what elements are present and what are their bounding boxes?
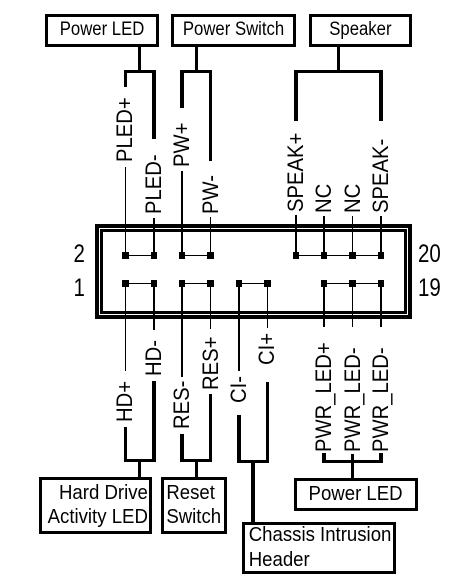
pin 1 HD+ xyxy=(122,280,129,287)
pin 20 SPEAK- xyxy=(378,252,385,259)
lead pin 1 to HD+ xyxy=(125,284,127,371)
link pins 14-20 xyxy=(296,255,381,257)
wire Chassis box drop xyxy=(251,463,255,522)
box Power Switch xyxy=(171,14,297,47)
lead pin 19 to PWR_LED- xyxy=(380,284,382,328)
wire PW+ stub xyxy=(180,70,184,108)
wire Speaker box drop xyxy=(337,46,341,71)
box Speaker xyxy=(309,14,413,47)
inner lead, bottom row col4 xyxy=(210,284,212,316)
lead pin 7 to RES+ xyxy=(210,284,212,329)
inner lead, bottom row col9 xyxy=(352,284,354,316)
pin 2 PLED+ xyxy=(122,252,129,259)
wire PLED+ stub xyxy=(124,70,128,87)
inner lead, bottom row col2 xyxy=(153,284,155,316)
wire PW- stub xyxy=(209,70,213,162)
wire HD- stub xyxy=(152,381,156,462)
label CI+ xyxy=(257,332,277,364)
link pins 2-4 xyxy=(125,255,153,257)
inner lead, top row col4 xyxy=(210,227,212,256)
wire Reset box drop xyxy=(195,462,199,477)
wire RES- stub xyxy=(180,434,184,462)
inner lead, bottom row col6 xyxy=(267,284,269,316)
inner lead, top row col9 xyxy=(352,227,354,256)
lead NC to pin 18 xyxy=(352,216,354,224)
box Hard Drive Activity LED xyxy=(39,477,152,535)
wire SPEAK- stub xyxy=(379,70,383,121)
link pins 1-3 xyxy=(125,283,153,285)
lead PW+ to pin 6 xyxy=(181,171,183,224)
lead SPEAK+ to pin 14 xyxy=(295,215,297,224)
pin 5 RES- xyxy=(179,280,186,287)
inner lead, bottom row col1 xyxy=(125,284,127,316)
row number 20 xyxy=(418,242,452,267)
pin 9 CI- xyxy=(236,280,243,287)
pin 19 PWR_LED- xyxy=(378,280,385,287)
pin 7 RES+ xyxy=(207,280,214,287)
label HD- xyxy=(144,340,164,376)
wire Speaker bar xyxy=(294,70,383,73)
label PW- xyxy=(201,175,221,214)
lead pin 15 to PWR_LED+ xyxy=(323,284,325,328)
pin 16 NC xyxy=(321,252,328,259)
lead pin 9 to CI- xyxy=(238,284,240,371)
inner lead, bottom row col3 xyxy=(181,284,183,316)
inner lead, top row col8 xyxy=(323,227,325,256)
link pins 6-8 xyxy=(182,255,210,257)
label HD+ xyxy=(115,381,135,422)
lead pin 3 to HD- xyxy=(153,284,155,330)
link pins 15-19 xyxy=(324,283,381,285)
inner lead, top row col2 xyxy=(153,227,155,256)
label NC (pin 16) xyxy=(314,183,334,212)
lead PW- to pin 8 xyxy=(210,217,212,225)
lead SPEAK- to pin 20 xyxy=(380,216,382,224)
pin 15 PWR_LED+ xyxy=(321,280,328,287)
wire Hard Drive bar xyxy=(124,459,156,462)
inner lead, top row col1 xyxy=(125,227,127,256)
row number 2 xyxy=(55,242,85,267)
wire PLED- stub xyxy=(152,70,156,139)
wire RES+ stub xyxy=(209,394,213,463)
pin 18 NC xyxy=(349,252,356,259)
wire Power LED (bottom) box drop xyxy=(351,454,355,478)
inner lead, bottom row col10 xyxy=(380,284,382,316)
connector header outline (outer) xyxy=(95,224,412,319)
label PLED+ xyxy=(115,97,135,162)
wire Power LED (bottom) bar xyxy=(322,460,382,463)
wire Power LED box drop xyxy=(138,46,142,71)
wire Hard Drive box drop xyxy=(138,462,142,477)
wire Power Switch bar xyxy=(180,70,212,73)
pin 6 PW+ xyxy=(179,252,186,259)
pin 8 PW- xyxy=(207,252,214,259)
label CI- xyxy=(229,376,249,403)
pin 14 SPEAK+ xyxy=(293,252,300,259)
box Chassis Intrusion Header xyxy=(242,522,396,575)
connector header outline (inner) xyxy=(100,229,407,314)
label PLED- xyxy=(144,154,164,214)
lead NC to pin 16 xyxy=(323,216,325,224)
lead pin 17 to PWR_LED- xyxy=(352,284,354,328)
inner lead, bottom row col8 xyxy=(323,284,325,316)
label PW+ xyxy=(172,123,192,167)
lead pin 11 to CI+ xyxy=(267,284,269,328)
label RES- xyxy=(172,381,192,429)
pin 11 CI+ xyxy=(264,280,271,287)
label PWR_LED- (pin 17) xyxy=(343,347,363,452)
box Power LED (bottom) xyxy=(294,478,418,511)
pin 3 HD- xyxy=(151,280,158,287)
inner lead, top row col7 xyxy=(295,227,297,256)
wire PWR_LED+ stub xyxy=(322,453,326,463)
wire Power LED bar xyxy=(124,70,156,73)
label SPEAK+ xyxy=(286,132,306,211)
lead pin 5 to RES- xyxy=(181,284,183,377)
wire Chassis bar xyxy=(237,460,269,463)
wire HD+ stub xyxy=(124,427,128,462)
inner lead, bottom row col5 xyxy=(238,284,240,316)
box Reset Switch xyxy=(161,477,228,535)
label NC (pin 18) xyxy=(343,183,363,212)
wire Power Switch box drop xyxy=(195,46,199,71)
inner lead, top row col3 xyxy=(181,227,183,256)
link pins 9-11 xyxy=(239,283,267,285)
link pins 5-7 xyxy=(182,283,210,285)
inner lead, top row col10 xyxy=(380,227,382,256)
label PWR_LED+ xyxy=(314,342,334,452)
row number 1 xyxy=(55,276,85,301)
lead PLED- to pin 4 xyxy=(153,218,155,225)
wire CI- stub xyxy=(237,415,241,463)
label RES+ xyxy=(201,337,221,390)
wire SPEAK+ stub xyxy=(294,70,298,121)
wire PWR_LED- stub xyxy=(379,453,383,463)
pin 4 PLED- xyxy=(151,252,158,259)
wire Reset bar xyxy=(180,459,212,462)
box Power LED (top) xyxy=(45,14,159,47)
row number 19 xyxy=(418,276,452,301)
pin 17 PWR_LED- xyxy=(349,280,356,287)
wire CI+ stub xyxy=(266,382,270,463)
lead PLED+ to pin 2 xyxy=(125,167,127,224)
label SPEAK- xyxy=(371,138,391,212)
label PWR_LED- (pin 19) xyxy=(371,347,391,452)
